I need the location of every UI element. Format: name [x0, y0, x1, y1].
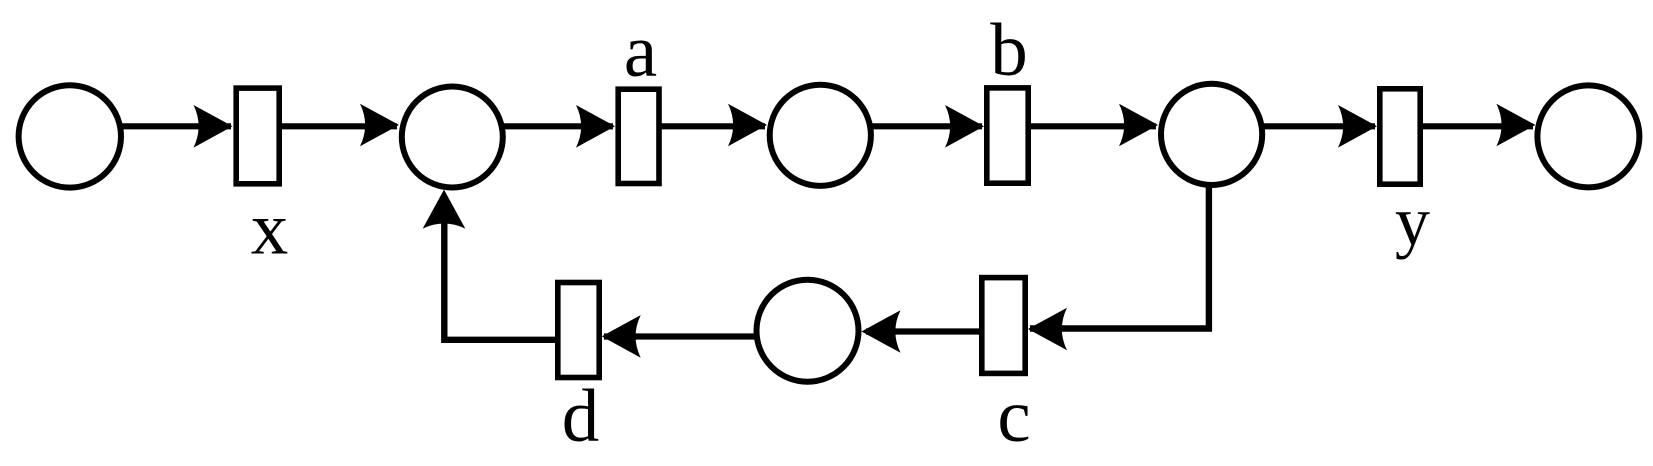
wire P6 to transition d: [604, 333, 755, 339]
svg-text:b: b: [990, 9, 1028, 92]
arrowhead into place P4: [1119, 104, 1158, 147]
svg-text:x: x: [251, 188, 289, 271]
transition b: [987, 88, 1028, 183]
svg-text:c: c: [997, 375, 1030, 458]
wire transition x to P2: [279, 123, 397, 129]
arrowhead into transition c: [1028, 308, 1067, 351]
arrowhead into transition y: [1338, 105, 1377, 148]
transition x: [236, 88, 279, 184]
wire transition c to P6: [866, 328, 981, 334]
wire transition b to P4: [1028, 123, 1156, 129]
place P1: [19, 85, 121, 187]
transition c: [982, 278, 1025, 374]
svg-text:y: y: [1395, 183, 1430, 260]
wire P3 to transition b: [869, 123, 982, 129]
arrowhead into place P3: [728, 104, 767, 147]
place P2: [402, 87, 503, 188]
place P6: [757, 280, 859, 382]
place P5: [1537, 85, 1639, 187]
svg-text:a: a: [624, 10, 657, 93]
wire transition a to P3: [659, 123, 765, 129]
arrowhead into place P6: [862, 310, 901, 353]
place P3: [770, 85, 871, 186]
wire P4 to transition y: [1261, 123, 1375, 129]
svg-text:d: d: [562, 375, 600, 458]
wire P2 to transition a: [500, 123, 613, 129]
arrowhead into transition b: [945, 105, 984, 148]
transition d: [558, 283, 599, 378]
arrowhead into transition d: [602, 315, 641, 358]
wire P4 down and left to transition c: [1030, 184, 1209, 329]
wire transition d left and up to P2: [444, 200, 557, 340]
arrowhead into transition a: [576, 105, 615, 148]
wire transition y to P5: [1420, 123, 1533, 129]
place P4: [1161, 84, 1262, 185]
wire P1 to transition x: [119, 123, 231, 129]
arrowhead into place P2 from below: [423, 190, 466, 229]
arrowhead into transition x: [194, 105, 233, 148]
arrowhead into place P5: [1496, 104, 1535, 147]
transition a: [618, 89, 659, 183]
transition y: [1380, 89, 1420, 184]
arrowhead into place P2: [360, 104, 399, 147]
